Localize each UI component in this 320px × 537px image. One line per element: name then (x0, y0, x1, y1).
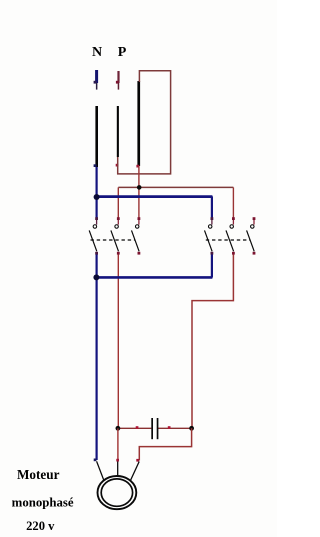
wire: blue N drop to node B (95, 167, 97, 197)
svg-text:N: N (92, 45, 102, 60)
wire: red drop to KM1 pole2 (117, 187, 119, 218)
wire: conductor L2 black (under P) (117, 106, 119, 157)
capacitor C1 plates (151, 418, 158, 439)
fuse F2 (phase, red) (116, 71, 120, 90)
wire: red stub L3 bottom to node A (138, 166, 140, 187)
wire: blue KM1 pole1 bottom down to motor (95, 255, 97, 461)
motor lead middle (black) (117, 462, 119, 477)
node C junction dot (116, 426, 121, 431)
wire: red bus y187 to KM2 (118, 186, 233, 188)
terminal tick (red) on L3 bottom (136, 165, 139, 168)
contactor KM2 pole 1 (205, 217, 214, 254)
contactor KM1 pole 1 (89, 217, 98, 254)
contactor KM1 pole 3 (132, 217, 141, 254)
terminal tick (blue) motor left (94, 459, 97, 462)
KM1 mechanical linkage (dashed) (91, 239, 135, 241)
contactor KM2 pole 2 (226, 217, 235, 254)
svg-text:220 v: 220 v (26, 519, 55, 533)
svg-text:monophasé: monophasé (12, 495, 74, 509)
fuse F1 (neutral, blue) (94, 70, 99, 90)
wire: red drop to KM2 pole2 (232, 187, 234, 218)
wire: blue drop node B to KM1 pole1 top (95, 197, 97, 219)
terminal tick (red) motor right (136, 459, 139, 462)
motor lead right (black diagonal) (130, 462, 139, 481)
wire: conductor L3 black (right) (137, 81, 140, 166)
svg-text:Moteur: Moteur (17, 467, 60, 482)
node D junction dot (189, 426, 194, 431)
wire: conductor L1 black (under N) (95, 106, 98, 167)
wire: red node D down-left-down to motor right terminal (139, 428, 191, 460)
contactor KM1 pole 2 (111, 217, 120, 254)
wire: red drop node A to KM1 pole3 (138, 189, 140, 218)
wire: red node C down to motor middle terminal (117, 428, 119, 460)
motor M1 (double ellipse) (98, 476, 137, 509)
terminal tick (red) left of C1 (136, 426, 139, 429)
node E junction dot (blue) (93, 274, 99, 280)
terminal tick (blue) on L1 bottom (94, 164, 97, 167)
wire: red KM1 pole2 bottom to capacitor node C (117, 255, 119, 429)
wire: red loop P to L3 top (118, 71, 171, 174)
wire: blue drop to KM2 pole1 top (211, 196, 213, 218)
terminal tick (red) on L2 bottom (116, 164, 119, 167)
terminal tick (red) right of C1 (168, 426, 171, 429)
wire: red KM2 pole2 bottom down-left-down to capacitor node D (192, 255, 233, 429)
contactor KM2 pole 3 (247, 217, 256, 254)
KM2 mechanical linkage (dashed) (206, 239, 251, 241)
capacitor C1 left wire (118, 427, 151, 429)
wire: blue return bus y276 (97, 276, 213, 279)
node B junction dot (94, 194, 100, 200)
node A junction dot (137, 185, 142, 190)
terminal tick (red) motor middle (116, 459, 119, 462)
motor lead left (black diagonal) (97, 461, 104, 480)
wire: blue KM2 pole1 bottom drop (211, 255, 213, 278)
svg-text:P: P (118, 45, 127, 60)
capacitor C1 right wire (158, 427, 192, 429)
wire: blue bus y196 to KM2 pole1 (97, 195, 213, 198)
